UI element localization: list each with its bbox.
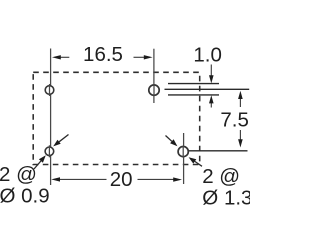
svg-text:2 @: 2 @ [0,163,37,186]
svg-text:7.5: 7.5 [220,109,249,132]
svg-text:1.0: 1.0 [193,44,222,67]
svg-text:2 @: 2 @ [202,165,240,188]
svg-text:16.5: 16.5 [83,43,123,66]
svg-text:Ø 0.9: Ø 0.9 [0,185,50,208]
svg-text:Ø 1.3: Ø 1.3 [202,187,250,210]
svg-text:20: 20 [110,168,133,191]
